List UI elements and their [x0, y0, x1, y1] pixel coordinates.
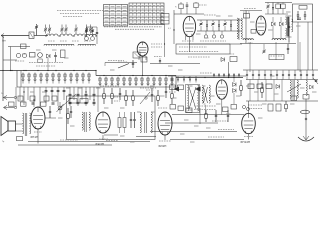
- trimmer cap: [90, 31, 92, 34]
- capacitor C: [77, 93, 80, 95]
- transformer T1 ratio detector: [286, 17, 287, 25]
- resistor network R: [18, 96, 23, 101]
- switch S2: [301, 110, 310, 114]
- resistor R28: [248, 84, 254, 89]
- resistor network R: [52, 96, 57, 101]
- cap C29: [287, 44, 289, 48]
- antenna input arrow: [1, 34, 4, 38]
- bus wire upper left: [0, 70, 96, 72]
- wires IF bottom rail: [172, 114, 244, 116]
- resistor R14b: [282, 3, 284, 5]
- resistor R31: [261, 82, 263, 88]
- capacitor row mid: [213, 73, 215, 78]
- secondary coil chain a: [44, 44, 74, 45]
- caption under box: [188, 56, 210, 58]
- wires right: [240, 43, 296, 45]
- wire psu vertical b: [307, 22, 309, 70]
- trimmer C20: [224, 20, 226, 22]
- switch S1 circles: [16, 53, 20, 57]
- diode V1: [47, 54, 51, 58]
- trimmer C22: [267, 3, 269, 5]
- antenna connector X1: [29, 32, 34, 39]
- wires IF top rail: [168, 75, 246, 77]
- tube type label: [151, 43, 162, 45]
- capacitor C: [93, 93, 96, 95]
- phone jack circles: [243, 106, 246, 109]
- wire VL8 plate: [248, 101, 250, 113]
- resistor R51: [21, 102, 27, 106]
- mains plug arrow: [305, 136, 307, 140]
- wire y46.5: [8, 46, 30, 48]
- wire plate rail: [174, 13, 204, 15]
- capacitor C35: [49, 106, 51, 111]
- wire mid left: [105, 62, 137, 64]
- text labels row: [29, 62, 63, 64]
- speaker BA1: [1, 117, 8, 136]
- rail right upper: [246, 79, 318, 81]
- table voltage chart small: [104, 5, 128, 27]
- wire under T7: [136, 136, 156, 138]
- coil L4: [86, 34, 96, 36]
- capacitor C: [69, 93, 72, 95]
- wire psu vertical a: [297, 22, 299, 70]
- bottom bus wire 2: [18, 144, 112, 146]
- resistor R1: [30, 53, 36, 58]
- capacitor C23: [272, 3, 274, 8]
- coil L2: [60, 34, 72, 36]
- volume pot arrow: [140, 92, 150, 104]
- wire trimmer tops: [87, 26, 98, 28]
- capacitor C26: [304, 11, 306, 15]
- IF transformer T3: [202, 85, 203, 103]
- transformer T6 interstage: [82, 112, 83, 130]
- capacitor C25: [297, 11, 299, 15]
- tube VL5 6P1P output: [31, 107, 45, 129]
- wire x228: [228, 62, 230, 78]
- diode V6 discriminator: [221, 58, 225, 62]
- band coil clusters row2: [99, 77, 101, 87]
- capacitor C12: [132, 60, 134, 63]
- UKV unit label box: [176, 44, 230, 54]
- volume pot R35: [59, 102, 61, 114]
- coil labels: [48, 40, 55, 42]
- coil L3: [74, 34, 86, 36]
- coil L10: [243, 39, 253, 40]
- IF transformer T2: [186, 85, 200, 113]
- trimmer right edge: [313, 78, 318, 84]
- wire VL4: [221, 99, 223, 114]
- resistor R32 pair: [268, 104, 273, 111]
- tuning gang arrow: [58, 94, 76, 110]
- wire anode vertical: [173, 10, 175, 44]
- trimmer cap: [86, 31, 88, 34]
- bottom bus wire: [28, 141, 150, 143]
- resistor R12: [244, 14, 250, 19]
- resistor R21: [111, 88, 113, 94]
- tube VL7 6I1P: [158, 112, 172, 135]
- capacitor C36: [70, 106, 72, 111]
- wire: [34, 35, 48, 37]
- trimmer cap: [75, 31, 77, 34]
- wire chain gaps: [58, 35, 60, 37]
- secondary coil chain b: [78, 44, 96, 45]
- trimmer C1: [36, 28, 38, 36]
- note text top-left: [57, 10, 103, 12]
- capacitor C14: [186, 2, 188, 5]
- capacitor C21: [230, 20, 232, 25]
- wire verticals with caps: [15, 87, 17, 107]
- extra caps left field: [45, 89, 48, 91]
- resistor R6 box: [230, 57, 237, 62]
- wire bus lower: [164, 135, 166, 140]
- capacitor C31: [151, 88, 153, 94]
- transformer T4 detector: [290, 80, 291, 98]
- psu cap horizontal: [297, 17, 301, 19]
- wires output stage: [37, 129, 39, 144]
- wire osc to mixer: [189, 43, 242, 45]
- bus wire B+ lower: [150, 131, 237, 133]
- diode V4b: [233, 89, 237, 93]
- resistor network R: [44, 96, 49, 101]
- wires right mid: [249, 80, 251, 102]
- wire tube VL1 pins: [142, 56, 144, 76]
- bus wire B+ upper: [165, 122, 218, 124]
- wire T3 down: [205, 105, 207, 115]
- resistor R7: [180, 2, 182, 4]
- diode V3: [280, 22, 284, 26]
- svg-text:6И1П: 6И1П: [159, 144, 167, 148]
- trimmer cap: [65, 31, 67, 34]
- junction: [305, 118, 307, 120]
- resistor R26b: [178, 85, 184, 90]
- svg-text:6Ж3П: 6Ж3П: [96, 142, 105, 146]
- wires speaker: [16, 123, 23, 125]
- tube VL2 6I1P triode-heptode: [183, 16, 195, 36]
- oscillator rail top: [197, 19, 242, 21]
- resistor R36: [67, 108, 69, 114]
- tube VL4 6K4P: [216, 80, 227, 99]
- jack circles: [14, 96, 16, 98]
- junction dots antenna: [45, 35, 46, 36]
- AGC box top right: [293, 4, 313, 22]
- capacitor C27: [288, 22, 290, 26]
- band switch box: [17, 71, 176, 88]
- resistor R52: [41, 102, 47, 106]
- capacitor C19: [218, 20, 220, 25]
- trimmer C18: [212, 20, 214, 22]
- junction dots: [23, 91, 24, 92]
- junction dots rail: [11, 70, 12, 71]
- det mid rail: [265, 13, 288, 15]
- resistor R20: [103, 88, 105, 94]
- oscillator rail bottom: [197, 30, 242, 32]
- AF board box: [67, 96, 156, 140]
- capacitor C17: [206, 20, 208, 25]
- resistor R15: [299, 6, 307, 10]
- resistor R40: [291, 96, 297, 101]
- resistor R0: [21, 44, 27, 49]
- svg-text:6П14П: 6П14П: [241, 140, 251, 144]
- resistor R14: [277, 3, 279, 5]
- capacitor C37: [130, 112, 132, 119]
- resistor R30: [266, 84, 272, 89]
- trimmer C16: [200, 20, 202, 22]
- capacitor C30: [119, 88, 121, 93]
- det top rail: [265, 2, 292, 4]
- terminal box X2: [161, 14, 169, 25]
- wire y135: [104, 134, 118, 136]
- component value labels scatter: [22, 53, 27, 55]
- trimmer C28: [263, 44, 265, 50]
- resistor R33: [285, 101, 287, 104]
- bus wire upper mid: [96, 75, 176, 77]
- resistor R24: [157, 90, 159, 96]
- coil box L6: [141, 57, 147, 62]
- input jack arrows: [4, 96, 8, 100]
- capacitor C7: [96, 27, 98, 44]
- diode V5: [276, 85, 280, 89]
- diode V7: [310, 85, 314, 89]
- resistor R29: [257, 84, 263, 89]
- resistor R25: [171, 88, 173, 94]
- tube VL8 6P14P: [242, 113, 256, 133]
- resistor R8: [195, 2, 197, 3]
- diode V9 solid: [195, 87, 201, 92]
- resistor R37a: [69, 99, 77, 104]
- resistor R34: [17, 137, 23, 141]
- winding L12: [306, 80, 307, 96]
- coil box L5: [133, 52, 140, 58]
- resistor network R: [30, 96, 35, 101]
- resistor R27: [186, 108, 192, 113]
- wire branch: [3, 59, 17, 61]
- wire from table: [164, 24, 166, 57]
- capacitor C8: [54, 54, 57, 56]
- band coil clusters row1: [22, 73, 24, 84]
- rail junction dots: [2, 70, 3, 71]
- wire AGC: [240, 10, 262, 12]
- diode V2: [272, 22, 276, 26]
- bus wire upper right: [176, 77, 243, 79]
- wires VL6: [102, 135, 104, 140]
- trimmer cap: [49, 31, 51, 34]
- capacitor C13: [159, 58, 161, 60]
- box right mid: [269, 55, 284, 60]
- rail right B+: [243, 69, 318, 71]
- resistor R26a: [170, 85, 176, 90]
- wire heater bus: [170, 139, 244, 141]
- resistor R22: [125, 90, 127, 96]
- resistor R50: [9, 102, 15, 106]
- table caption text: [104, 26, 162, 28]
- wire right verticals: [249, 42, 251, 72]
- capacitor C32: [165, 86, 167, 91]
- wire top right: [245, 11, 247, 43]
- resistor R3: [61, 50, 66, 58]
- coil L11: [272, 39, 286, 40]
- capacitor C38: [134, 112, 136, 119]
- rail right lower: [246, 100, 318, 102]
- twin trimmer C5 C6: [86, 27, 88, 36]
- diode V8 solid: [174, 87, 180, 92]
- resistor R13: [251, 30, 256, 34]
- components above VL8: [205, 110, 207, 114]
- capacitor row right: [246, 70, 248, 80]
- switch frame inner: [20, 71, 22, 88]
- resistor pair R41 R42: [119, 112, 121, 118]
- wire right edge: [312, 22, 314, 70]
- svg-text:6П1П: 6П1П: [31, 135, 39, 139]
- fuse F1: [303, 95, 309, 100]
- resistor R37b: [80, 99, 88, 104]
- resistor R26: [240, 80, 242, 86]
- resistor R5 diagonal: [118, 64, 129, 69]
- resistor row under IF: [170, 105, 176, 110]
- tube VL6 6Zh3P: [96, 112, 110, 133]
- pot circle R2: [38, 53, 43, 58]
- tube VL3 6K4P: [256, 16, 266, 35]
- resistor R23: [132, 90, 134, 96]
- cap drops under rail: [171, 76, 173, 83]
- oscillator coil L8: [237, 18, 238, 39]
- wire mains vertical: [305, 99, 307, 136]
- table mode chart large: [129, 3, 164, 25]
- capacitor C: [85, 93, 88, 95]
- tube VL1 6N3P: [137, 42, 148, 56]
- wire left edge vertical: [2, 36, 4, 102]
- wire left vertical: [10, 47, 12, 71]
- trimmer cap: [61, 31, 63, 34]
- transformer T7 detector coil: [140, 112, 141, 133]
- wire y63.5: [150, 63, 200, 65]
- transformer T5 output: [23, 113, 24, 134]
- diode V4a: [233, 83, 237, 87]
- coil L1 chain: [46, 34, 58, 36]
- trimmer cap: [45, 31, 47, 34]
- wire VL2 pins: [188, 37, 190, 52]
- wire VL8 cathode: [248, 134, 250, 140]
- wire antenna to switch: [1, 35, 29, 37]
- trimmer circles under osc: [204, 35, 207, 38]
- capacitor C40: [32, 102, 35, 104]
- capacitor C41: [52, 102, 55, 104]
